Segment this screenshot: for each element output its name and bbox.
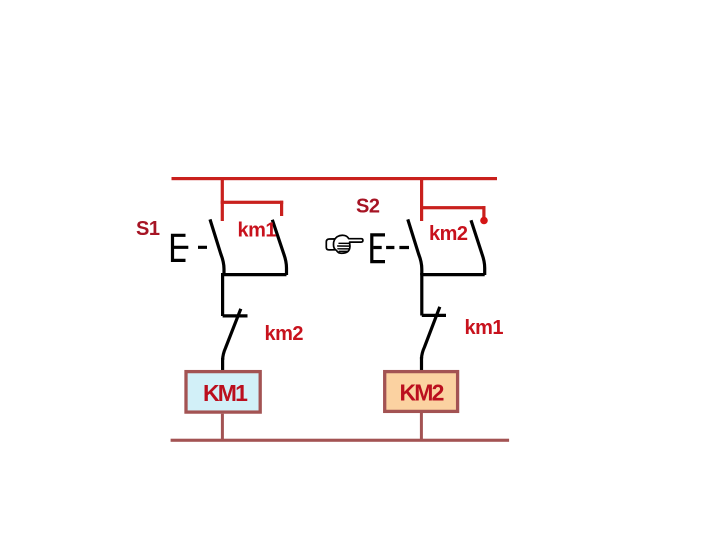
wire: right red branch horizontal to km2 contact [420,206,486,209]
svg-text:km2: km2 [265,323,304,345]
wire: KM1 coil to bottom rail (brown) [221,414,224,440]
coil KM2 box [385,372,458,412]
pushbutton S2 actuator bracket [372,235,385,262]
wire: top supply bus (red) [172,177,498,180]
svg-text:km1: km1 [238,219,277,241]
svg-text:KM2: KM2 [400,380,444,406]
wire: left branch vertical stem below junction [221,273,224,316]
pushbutton S2 linkage dashes [373,246,409,249]
pushbutton S1 actuator bracket [173,235,186,260]
wire: bottom return rail (brown) [171,439,510,442]
svg-text:km2: km2 [429,223,468,245]
contact: km2 NO auxiliary (seal-in) movable contact [471,220,485,275]
contact: S2 NO movable contact [408,219,422,275]
wire: junction joining S2 and km2 contacts [420,273,484,276]
wire: right branch vertical stem below junction [420,273,423,316]
contact: S1 NO movable contact [210,219,224,275]
wire: junction joining S1 and km1 contacts [223,273,287,276]
node: red junction dot at km2 contact terminal [480,217,488,225]
pushbutton S1 linkage dashes [174,246,207,249]
contact km1 NC: movable blade [422,307,440,359]
svg-text:KM1: KM1 [203,380,248,406]
wire: left red drop from bus at node x=222 [221,177,224,221]
wire: right red drop from bus at node x=421.5 [420,177,423,221]
annotation: pointing hand icon [326,235,363,253]
svg-text:S2: S2 [356,196,380,218]
wire: KM2 coil to bottom rail (brown) [420,413,423,440]
wire: right red branch stub down [482,206,485,218]
coil KM1 box [186,372,260,413]
contact: km1 NO auxiliary (seal-in) movable contact [272,220,286,275]
contact km2 NC: fixed seat tick [223,314,248,317]
wire: left red branch horizontal to km1 contact [221,201,284,204]
contact km1 NC: fixed seat tick [422,314,446,317]
contact km2 NC: movable blade [223,309,241,360]
wire: into KM2 coil [420,357,423,371]
svg-text:km1: km1 [465,317,504,339]
wire: left red branch stub down [280,201,283,216]
wire: into KM1 coil [221,358,224,371]
svg-text:S1: S1 [136,218,160,240]
